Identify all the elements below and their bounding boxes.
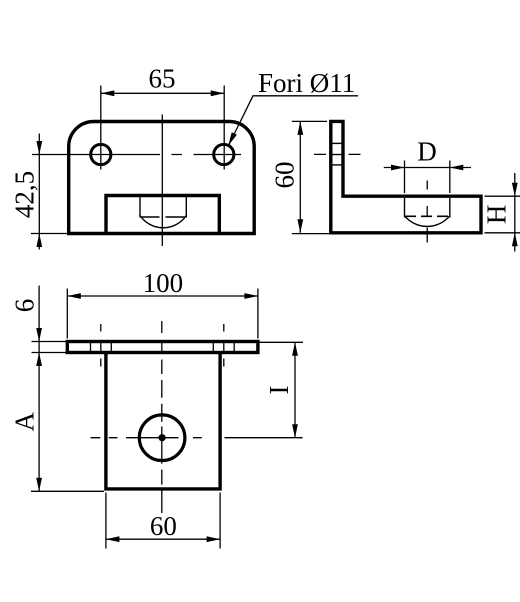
arrow 100 left: [67, 293, 81, 299]
horizontal centerline through holes: [32, 154, 241, 156]
flange hole lines left: [91, 342, 112, 353]
dimension line I: [294, 342, 296, 437]
plate hole hidden line bottom (side view): [331, 164, 343, 166]
hole right (front view): [214, 144, 234, 164]
dimension line 60 (side view): [299, 121, 301, 232]
arrow I top: [292, 342, 298, 356]
svg-text:A: A: [10, 412, 40, 432]
bottom view flange: [67, 342, 258, 353]
slot left wall (side view): [404, 198, 406, 218]
notch rectangle in front view: [106, 196, 219, 234]
plate hole centerline dashes (side view): [314, 153, 361, 155]
arrow 6 top: [36, 328, 42, 342]
dimension line H: [514, 173, 516, 252]
extension line 6 bottom / flange bottom: [32, 352, 67, 354]
extension line bottom of front view: [31, 233, 67, 235]
arrow D right: [450, 165, 464, 171]
flange hole centerline dashes left: [100, 324, 102, 367]
arrow H top: [512, 183, 518, 197]
slot right wall (side view): [449, 198, 451, 218]
flange hole centerline dashes right: [223, 324, 225, 367]
arrow 65 right: [211, 90, 225, 96]
arrow 60 bottom left: [106, 536, 120, 542]
arrow 60 top: [297, 121, 303, 134]
front view outline (top-left): [69, 122, 255, 234]
arrow I bottom: [292, 424, 298, 438]
arrow 60 bottom: [297, 219, 303, 233]
flange hole lines right: [213, 342, 234, 353]
slot centerline (side view): [426, 181, 428, 243]
arrow 65 left: [101, 90, 115, 96]
svg-text:60: 60: [150, 511, 177, 541]
svg-text:60: 60: [270, 162, 300, 189]
slot hidden bottom dashed line (front view): [141, 216, 187, 218]
extension line D left: [404, 161, 406, 194]
dimension line 65: [101, 92, 224, 94]
arrow A bottom: [36, 478, 42, 492]
dimension line 6 and A: [38, 286, 40, 492]
vertical centerline (bottom view): [161, 321, 163, 513]
arrow 42,5 top: [36, 141, 42, 155]
arrow H bottom: [512, 233, 518, 247]
slot bottom arc (side view): [405, 216, 450, 227]
hole left (front view): [91, 144, 111, 164]
plate hole centerline crossing (side view): [331, 154, 343, 156]
hole left centerline / extension: [100, 86, 102, 170]
svg-text:6: 6: [10, 299, 40, 313]
extension line I top: [259, 341, 303, 343]
slot hidden bottom dashed (side view): [405, 215, 449, 217]
vertical centerline of front view: [161, 115, 163, 247]
extension line bottom (side view 60): [292, 233, 330, 235]
extension line H top: [485, 195, 520, 197]
leader line Fori: [229, 96, 358, 145]
circle hole (bottom view): [139, 415, 185, 461]
extension line top (side view 60): [292, 120, 327, 122]
slot bottom arc (front view): [140, 216, 186, 228]
dimension line 100: [67, 295, 258, 297]
extension line 60 bottom right: [219, 493, 221, 549]
slot left wall (front view): [139, 197, 141, 218]
svg-text:I: I: [264, 386, 294, 395]
svg-text:100: 100: [143, 268, 184, 298]
leader arrow: [228, 132, 237, 145]
extension line D right: [449, 161, 451, 194]
svg-text:H: H: [482, 205, 512, 225]
horizontal centerline through circle (bottom view): [91, 437, 303, 439]
svg-text:D: D: [417, 137, 437, 167]
extension line H bottom: [485, 232, 520, 234]
slot right wall (front view): [185, 197, 187, 218]
hole right centerline / extension: [223, 86, 225, 170]
arrow D left: [391, 165, 405, 171]
bottom view body: [106, 353, 220, 489]
extension line 6 top: [32, 341, 67, 343]
dimension line D: [384, 167, 471, 169]
svg-text:65: 65: [149, 64, 176, 94]
extension line 60 bottom left: [105, 493, 107, 549]
dimension line 60 bottom: [106, 538, 220, 540]
dimension line 42,5: [38, 134, 40, 250]
arrow 60 bottom right: [207, 536, 221, 542]
arrow 100 right: [244, 293, 258, 299]
side view outline (top-right): [331, 121, 481, 232]
extension line 100 right: [257, 289, 259, 339]
svg-text:Fori Ø11: Fori Ø11: [258, 68, 355, 98]
extension line A bottom: [31, 490, 104, 492]
center dot: [159, 434, 166, 441]
arrow 42,5 bottom: [36, 234, 42, 248]
svg-text:42,5: 42,5: [10, 171, 40, 218]
extension line 100 left: [66, 289, 68, 339]
arrow A top: [36, 353, 42, 367]
plate hole hidden line top (side view): [331, 142, 343, 144]
